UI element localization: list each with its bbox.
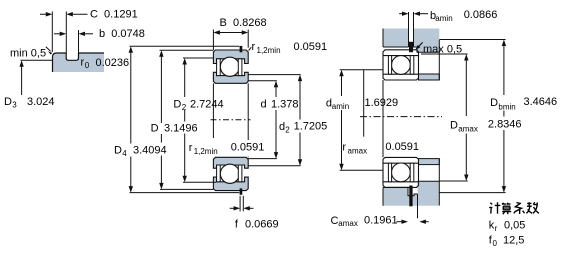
svg-text:r: r [189, 142, 193, 154]
label max 0,5 [416, 42, 463, 55]
bearing side faces between sections [213, 83, 248, 157]
centerline right figure [360, 116, 442, 118]
bottom snap ring [240, 188, 243, 194]
svg-text:2.7244: 2.7244 [190, 99, 224, 111]
svg-text:B 0.8268: B 0.8268 [220, 17, 267, 29]
svg-text:1.7205: 1.7205 [294, 121, 328, 133]
svg-text:C 0.1291: C 0.1291 [90, 8, 138, 20]
bottom shields [217, 165, 242, 182]
svg-text:0: 0 [493, 239, 498, 248]
svg-text:0.1961: 0.1961 [364, 214, 398, 226]
svg-text:D: D [173, 99, 181, 111]
svg-text:0.0866: 0.0866 [464, 9, 498, 21]
right bearing top section [383, 50, 419, 80]
svg-text:2.8346: 2.8346 [488, 119, 522, 131]
svg-text:0.0591: 0.0591 [231, 142, 265, 154]
right bearing bottom shields [388, 163, 413, 182]
right top snap ring [409, 42, 413, 52]
svg-text:3.4094: 3.4094 [133, 145, 167, 157]
ring section with snap ring groove [53, 53, 105, 72]
top snap ring [240, 46, 243, 52]
right bearing face line between sections [382, 80, 384, 157]
svg-text:3.4646: 3.4646 [524, 96, 558, 108]
label r 1,2min bottom [189, 142, 265, 156]
dimension Dbmin [439, 40, 506, 193]
svg-text:4: 4 [122, 149, 127, 158]
right bearing bottom ball [392, 163, 411, 182]
svg-text:D: D [151, 123, 159, 135]
housing top block [383, 29, 439, 53]
svg-text:1.6929: 1.6929 [365, 97, 399, 109]
bearing bottom section: inner ring [213, 157, 248, 168]
svg-text:D: D [114, 145, 122, 157]
svg-text:amax: amax [338, 219, 358, 228]
dimension d amin [339, 70, 383, 171]
label r0 [81, 57, 130, 70]
svg-text:1.378: 1.378 [271, 99, 299, 111]
svg-text:D: D [4, 96, 12, 108]
heading 计算系数 [489, 202, 539, 214]
bottom ball [220, 164, 239, 183]
bearing top section: outer ring [213, 50, 248, 64]
centerline middle figure [211, 119, 251, 121]
svg-text:bmin: bmin [498, 103, 515, 112]
shaft spacer bottom [419, 159, 440, 165]
svg-text:2: 2 [182, 103, 187, 112]
right bearing top ball [392, 56, 411, 75]
svg-text:r: r [252, 41, 256, 53]
svg-text:2: 2 [285, 126, 290, 135]
svg-text:1,2min: 1,2min [257, 46, 281, 55]
shaft spacer top [419, 74, 440, 80]
label min 0,5 [10, 47, 52, 60]
bearing bottom section: outer ring [213, 177, 248, 191]
dimension d [248, 81, 278, 159]
label kr 0,05 [489, 220, 526, 233]
label r amax [342, 70, 419, 156]
dimension b [54, 30, 93, 53]
dimension D2 [183, 58, 217, 182]
svg-text:0.0591: 0.0591 [294, 41, 328, 53]
dimension D [159, 50, 213, 189]
svg-text:3.024: 3.024 [27, 96, 55, 108]
svg-text:0.0669: 0.0669 [245, 219, 279, 231]
svg-text:0.0236: 0.0236 [96, 57, 130, 69]
svg-text:12,5: 12,5 [503, 235, 524, 247]
bearing top section: inner ring [213, 72, 248, 83]
top shields [217, 59, 242, 76]
dimension D4 [129, 46, 240, 192]
svg-text:0,05: 0,05 [504, 220, 525, 232]
svg-text:1,2min: 1,2min [194, 147, 218, 156]
dimension C [40, 12, 88, 53]
svg-text:r: r [495, 224, 498, 233]
housing right face [438, 40, 440, 206]
housing bottom block [383, 181, 439, 206]
svg-text:0: 0 [85, 61, 90, 70]
dimension B [213, 30, 248, 51]
right bottom snap ring [409, 186, 412, 207]
label f0 12,5 [489, 235, 525, 248]
svg-text:amin: amin [332, 102, 349, 111]
right bearing top shields [388, 56, 413, 75]
dimension C amax [397, 194, 429, 224]
svg-text:b 0.0748: b 0.0748 [99, 28, 145, 40]
dimension d2 [248, 75, 302, 166]
dimension D3 [4, 60, 55, 109]
svg-text:D: D [490, 97, 498, 109]
svg-text:C: C [331, 215, 339, 227]
svg-text:amax: amax [458, 125, 478, 134]
dimension Damax [421, 54, 468, 181]
label r 1,2min top [249, 41, 328, 55]
svg-text:amin: amin [435, 14, 452, 23]
svg-text:d: d [261, 99, 267, 111]
svg-text:d: d [279, 121, 285, 133]
dimension b amin [399, 12, 428, 29]
top ball [220, 57, 239, 76]
svg-text:amax: amax [348, 147, 368, 156]
svg-text:r: r [342, 142, 346, 154]
right bearing bottom section [383, 157, 419, 187]
svg-text:min 0,5: min 0,5 [10, 47, 46, 59]
svg-text:D: D [450, 120, 458, 132]
svg-text:f: f [235, 219, 239, 231]
svg-text:3.1496: 3.1496 [164, 123, 198, 135]
dimension f [230, 196, 254, 212]
svg-text:0.0591: 0.0591 [385, 141, 419, 153]
svg-text:3: 3 [12, 101, 17, 110]
